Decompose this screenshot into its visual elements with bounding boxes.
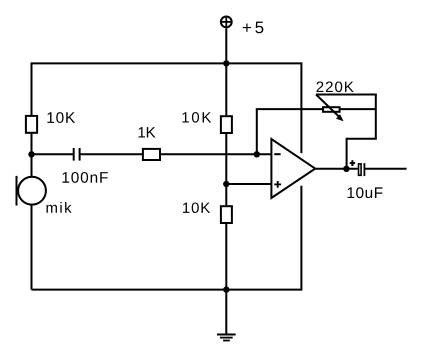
wire output right: [365, 168, 407, 170]
wire feedback top horizontal: [316, 94, 377, 96]
ground: [217, 335, 236, 341]
wire op-amp output: [315, 168, 358, 170]
wire middle branch lower: [225, 224, 227, 290]
wire middle branch upper: [225, 63, 227, 115]
wire feedback horizontal right: [341, 108, 376, 110]
op-amp U1: [271, 139, 315, 198]
label mik: [46, 202, 71, 213]
wire ground stub: [225, 290, 227, 335]
microphone MIC: [17, 176, 46, 206]
label 10K left: [47, 112, 75, 123]
wire feedback riser: [256, 109, 258, 154]
wire top rail: [32, 62, 302, 64]
resistor R3 10K middle bottom: [221, 206, 232, 223]
wire cap to R4: [81, 153, 142, 155]
capacitor C2 10uF polarized: [359, 163, 365, 176]
capacitor C2 plus sign: [350, 160, 355, 166]
wire op-amp negative supply: [300, 186, 302, 291]
node top rail junction: [223, 60, 229, 66]
label 10uF: [348, 187, 383, 198]
op-amp plus sign: [274, 181, 281, 188]
node minus input junction: [254, 151, 260, 157]
node output junction: [343, 166, 349, 172]
potentiometer arrow: [316, 95, 339, 117]
label 220K: [317, 81, 354, 92]
label +5: [243, 22, 264, 34]
power supply symbol +5: [221, 17, 232, 28]
node plus input junction: [223, 181, 229, 187]
wire mic node to cap: [32, 153, 73, 155]
wire R1 to mic node: [31, 133, 33, 155]
label 100nF: [63, 172, 108, 183]
wire R4 to op-amp minus input: [161, 153, 271, 155]
potentiometer P1 220K: [323, 107, 340, 112]
resistor R4 1K: [143, 149, 160, 160]
resistor R2 10K middle top: [221, 116, 232, 133]
wire feedback right vertical: [375, 95, 377, 139]
wire bottom rail: [32, 289, 302, 291]
op-amp minus sign: [274, 153, 280, 155]
wire mic to bottom rail: [31, 204, 33, 289]
wire feedback down vertical: [346, 138, 348, 169]
wire op-amp positive supply: [300, 62, 302, 153]
wire plus input: [226, 183, 271, 185]
wire +5 stem: [225, 28, 227, 63]
wire feedback corner horizontal: [347, 138, 377, 140]
wire middle branch center: [225, 134, 227, 205]
node bottom rail junction: [223, 286, 229, 292]
wire left rail upper: [31, 62, 33, 116]
capacitor C1 100nF: [74, 148, 80, 161]
label 10K middle bottom: [183, 202, 210, 213]
wire mic node down: [31, 154, 33, 177]
label 1K: [139, 127, 156, 137]
node mic junction: [28, 151, 34, 157]
resistor R1 10K left: [26, 116, 37, 133]
label 10K middle top: [182, 112, 211, 123]
wire feedback horizontal left: [256, 108, 322, 110]
